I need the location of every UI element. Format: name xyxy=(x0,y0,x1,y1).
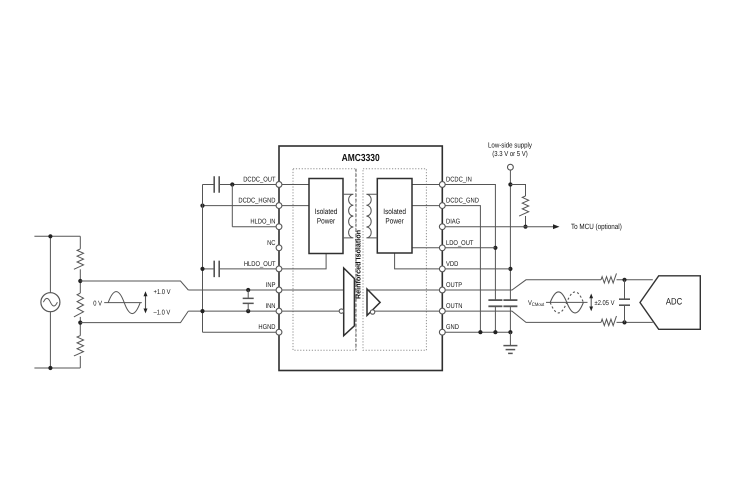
svg-text:Power: Power xyxy=(317,217,336,226)
svg-text:To MCU (optional): To MCU (optional) xyxy=(571,222,622,231)
svg-text:VDD: VDD xyxy=(446,261,458,268)
svg-text:HGND: HGND xyxy=(258,324,275,331)
svg-text:DCDC_HGND: DCDC_HGND xyxy=(238,198,275,205)
svg-text:DCDC_GND: DCDC_GND xyxy=(446,198,479,205)
svg-text:(3.3 V or 5 V): (3.3 V or 5 V) xyxy=(492,149,527,158)
svg-text:±2.05 V: ±2.05 V xyxy=(595,300,615,307)
svg-text:Isolated: Isolated xyxy=(315,207,338,216)
svg-text:DCDC_OUT: DCDC_OUT xyxy=(243,177,276,184)
svg-text:DCDC_IN: DCDC_IN xyxy=(446,177,472,184)
svg-text:DIAG: DIAG xyxy=(446,219,460,226)
svg-text:Isolated: Isolated xyxy=(383,207,406,216)
svg-text:0 V: 0 V xyxy=(93,301,102,308)
svg-text:AMC3330: AMC3330 xyxy=(342,153,380,164)
svg-text:HLDO_IN: HLDO_IN xyxy=(250,219,275,226)
svg-text:GND: GND xyxy=(446,324,459,331)
svg-text:INP: INP xyxy=(266,282,276,289)
svg-text:–1.0 V: –1.0 V xyxy=(154,310,171,317)
svg-text:INN: INN xyxy=(265,303,275,310)
svg-text:+1.0 V: +1.0 V xyxy=(154,289,171,296)
svg-text:LDO_OUT: LDO_OUT xyxy=(446,240,474,247)
svg-text:OUTP: OUTP xyxy=(446,282,462,289)
svg-text:NC: NC xyxy=(267,240,275,247)
svg-text:Power: Power xyxy=(385,217,404,226)
svg-text:HLDO_OUT: HLDO_OUT xyxy=(244,261,276,268)
svg-text:OUTN: OUTN xyxy=(446,303,462,310)
svg-text:ADC: ADC xyxy=(666,297,683,307)
